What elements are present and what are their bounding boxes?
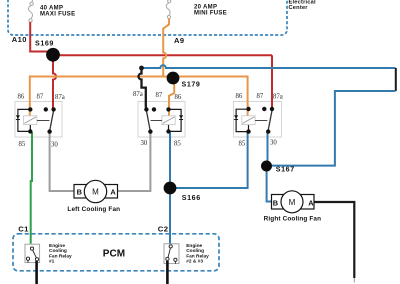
PCM internal switch for C2 (engine cooling fan relay 2 and 3) [164,244,179,264]
junction S166 [164,182,177,195]
svg-text:Center: Center [289,5,309,11]
svg-text:PCM: PCM [103,249,125,260]
relay box K1 (left) [15,102,62,138]
svg-text:86: 86 [175,94,182,101]
svg-text:85: 85 [239,140,246,147]
wire green relay K1 85 to C1 [31,132,32,244]
relay K1 internals [16,93,65,148]
wire red right drop to relay K3 87a [271,55,273,108]
pin 30 K2 [148,129,152,133]
pin 86 K2 [166,107,170,111]
PCM internal switch for C1 (engine cooling fan relay 1) [25,244,40,262]
wire blue relay K3 30 to S167 [267,133,269,167]
coil rectangle K3 [242,116,255,125]
svg-text:A10: A10 [12,35,27,44]
relay box K2 (middle) [138,102,185,138]
fuse A9 (20 AMP MINI FUSE) [166,0,171,19]
wire gray relay K2 30 to left fan A [118,133,150,192]
svg-text:Left Cooling Fan: Left Cooling Fan [67,206,120,213]
svg-text:Right Cooling Fan: Right Cooling Fan [264,216,322,223]
svg-text:Cooling: Cooling [49,248,67,254]
coil rectangle K1 [24,116,37,125]
svg-text:A: A [308,198,314,207]
PCM dashed box [13,234,219,271]
switch armature K2 [146,111,150,131]
svg-text:C1: C1 [18,224,29,233]
wire red bus S169 to right drop [53,54,272,56]
pin 87 K2 [152,107,156,111]
diode K2 [179,115,183,119]
actuator link K1 [37,120,50,122]
switch armature K1 [50,111,54,131]
wire black short drop at right end of blue bus [395,68,397,91]
svg-text:86: 86 [18,94,25,101]
pin 86 K3 [246,107,250,111]
actuator link K2 [151,120,162,122]
pin 87a K2 [144,107,148,111]
pin 87 K1 [44,107,48,111]
diode K1 [16,115,20,119]
pin 85 K3 [246,129,250,133]
svg-text:M: M [289,198,296,207]
svg-text:87: 87 [257,93,264,100]
relay box K3 (right) [234,102,282,138]
pin 85 K1 [28,129,32,133]
pin 30 K3 [266,129,270,133]
coil loop K1 [18,109,30,131]
right cooling fan motor M2 [264,191,322,223]
wire gray relay K1 30 to left fan B [50,133,74,192]
wire orange bus to relays 86 [30,77,248,116]
svg-text:S167: S167 [276,165,295,173]
junction S169 [46,48,60,62]
pin 87a K1 [51,107,55,111]
svg-text:C2: C2 [158,225,169,234]
coil loop K3 [236,109,248,131]
coil loop K2 [169,109,182,131]
wire black right fan A to bottom [314,202,354,278]
fuse A10 (40 AMP MAXI FUSE) [28,0,33,22]
wire blue bus (hop over orange) [142,65,396,68]
svg-text:MAXI FUSE: MAXI FUSE [40,11,75,17]
svg-text:Fan Relay: Fan Relay [49,253,72,259]
svg-text:B: B [77,188,82,197]
svg-text:30: 30 [270,140,277,147]
wire black C2 switch to bottom [166,261,169,284]
pin 87a K3 [270,107,274,111]
diode K3 [234,115,238,119]
relay K2 internals (mirrored) [133,91,183,148]
wire black C1 switch to bottom [35,261,38,284]
wire blue relay K2 85 through S166 to C2 [169,133,171,244]
pin 86 K1 [28,107,32,111]
relay K3 internals [234,93,283,147]
pin 30 K1 [47,129,51,133]
wire thin tail below [353,278,355,283]
actuator link K3 [255,120,267,122]
svg-text:MINI FUSE: MINI FUSE [194,10,227,16]
left cooling fan motor M1 [67,180,120,213]
svg-text:#2 & #3: #2 & #3 [186,259,203,265]
junction S179 [167,72,180,85]
switch armature K3 [268,111,272,131]
wire red from fuse A10 to S169 [30,22,48,52]
svg-text:S179: S179 [182,80,201,88]
wire red S169 down to relay K1 87a (hop over orange) [53,57,56,108]
svg-text:85: 85 [19,141,26,148]
svg-text:Engine: Engine [186,243,202,249]
wire blue S166 to relay K3 85 [170,133,248,189]
wire blue S167 down to right fan B [267,166,272,202]
svg-text:Engine: Engine [49,243,65,249]
svg-text:S166: S166 [182,194,201,202]
svg-text:M: M [92,188,99,197]
pin 85 K2 [166,129,170,133]
svg-text:86: 86 [236,93,243,100]
svg-text:Fan Relay: Fan Relay [186,253,209,259]
svg-text:A: A [110,188,116,197]
svg-text:87: 87 [156,92,163,99]
svg-text:30: 30 [51,141,58,148]
svg-text:#1: #1 [49,259,55,265]
svg-text:A9: A9 [174,36,185,45]
svg-text:30: 30 [141,140,148,147]
wire orange from fuse A9 down to S179 (hop over red) [163,19,169,77]
wire black from blue bus to relay K2 87a (hop over orange) [139,68,146,108]
svg-text:Cooling: Cooling [186,248,204,254]
svg-text:87a: 87a [133,91,143,98]
junction dot on blue bus [139,66,144,71]
svg-text:B: B [273,198,278,207]
svg-text:87: 87 [37,93,44,100]
svg-text:85: 85 [174,141,181,148]
wire orange S179 down to relay K2 86 [169,80,174,116]
wire blue right return to S167 [272,91,396,166]
electrical center dashed box [8,0,287,35]
junction S167 [261,161,272,172]
svg-text:87a: 87a [273,94,283,101]
svg-text:87a: 87a [55,94,65,101]
pin 87 K3 [262,107,266,111]
coil rectangle K2 [162,116,175,125]
svg-text:S169: S169 [35,40,54,48]
